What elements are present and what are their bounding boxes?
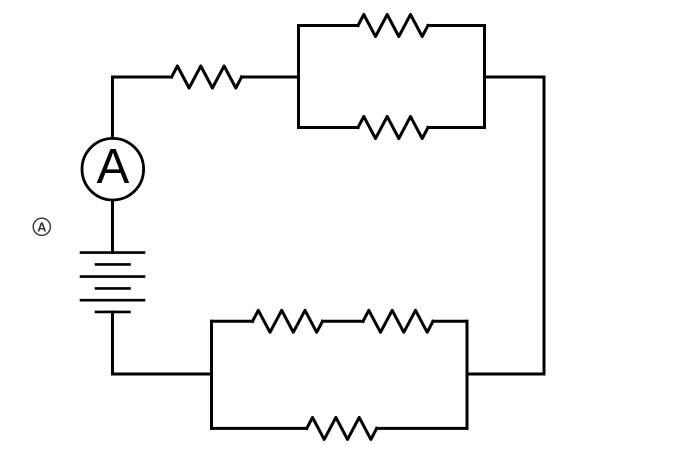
wire: ammeter bottom to battery top (111, 201, 114, 253)
wire: right rail vertical (543, 77, 546, 374)
resistor R4 (first series resistor, top branch of bottom box) (253, 310, 323, 332)
wire: between R4 and R5 (323, 320, 364, 323)
resistor R2 (top branch of top parallel box) (358, 15, 428, 37)
wire: top-left vertical from corner down to ammeter (111, 77, 114, 138)
svg-text:A: A (97, 140, 130, 194)
wire: bottom box right edge (466, 321, 469, 428)
wire: top box bottom edge left segment (299, 126, 359, 129)
wire: left rail up to battery bottom (111, 312, 114, 374)
battery B1 long plate 1 (81, 251, 144, 254)
wire: top box left edge (297, 26, 300, 128)
resistor R1 (172, 66, 242, 88)
wire: bottom box left edge (210, 321, 213, 428)
wire: top box top edge right segment (428, 24, 485, 27)
wire: R1 to top parallel box (242, 76, 299, 79)
wire: bottom box to left rail (113, 373, 212, 376)
answer marker circled A: circle (33, 218, 50, 235)
wire: bottom box bottom edge left segment (212, 427, 307, 430)
wire: right rail to bottom parallel box (467, 373, 544, 376)
wire: top box right edge (483, 26, 486, 128)
resistor R5 (second series resistor, top branch of bottom box) (363, 310, 433, 332)
wire: top horizontal from corner to resistor R1 (113, 76, 172, 79)
wire: top box top edge left segment (299, 24, 359, 27)
wire: top box bottom edge right segment (428, 126, 485, 129)
resistor R3 (bottom branch of top parallel box) (358, 117, 428, 139)
svg-text:A: A (37, 221, 46, 235)
wire: bottom box top edge right segment (433, 320, 467, 323)
wire: bottom box top edge left segment (212, 320, 253, 323)
battery B1 long plate 3 (81, 299, 144, 302)
ammeter M1 circle (82, 138, 144, 200)
battery B1 short plate 1 (96, 263, 130, 266)
battery B1 short plate 3 (96, 311, 130, 314)
wire: top box to right rail (485, 76, 545, 79)
wire: bottom box bottom edge right segment (377, 427, 467, 430)
resistor R6 (bottom branch of bottom box) (307, 417, 377, 439)
battery B1 long plate 2 (81, 275, 144, 278)
battery B1 short plate 2 (96, 287, 130, 290)
